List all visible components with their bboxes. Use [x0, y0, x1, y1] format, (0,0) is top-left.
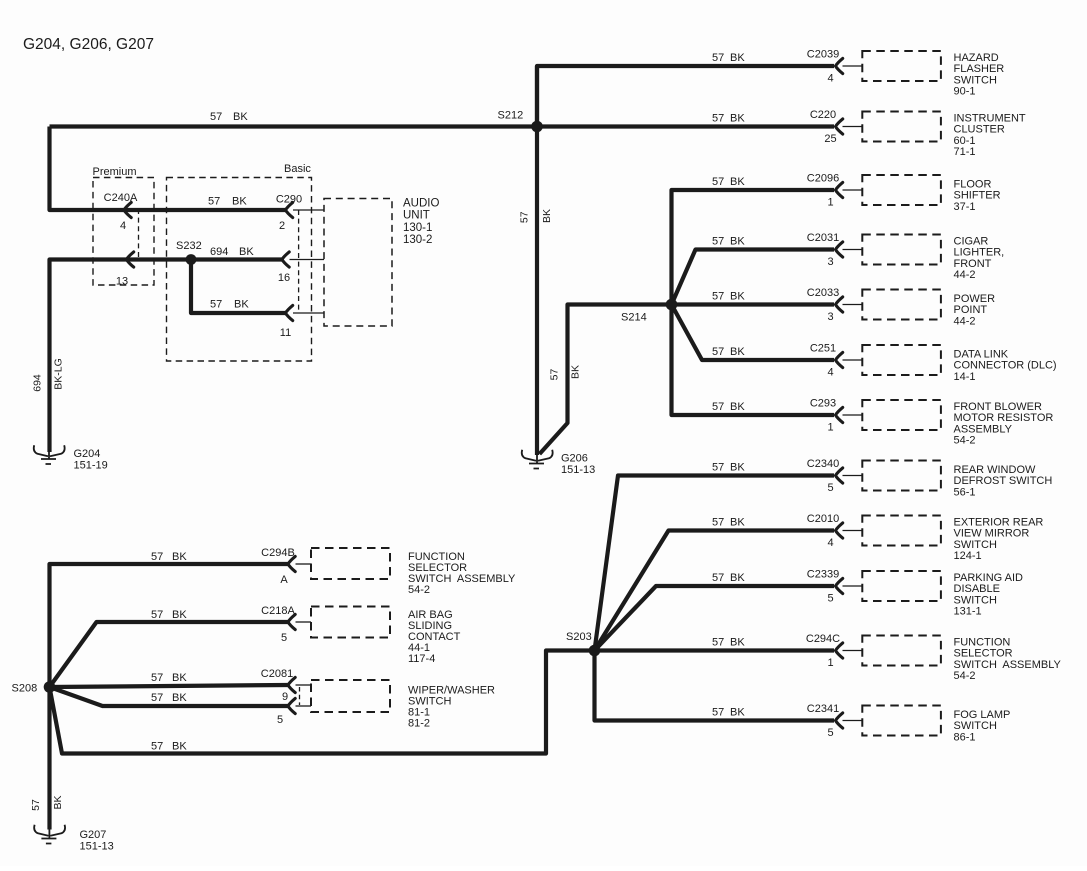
lead C251 to component [843, 359, 863, 361]
svg-text:57: 57 [712, 236, 724, 248]
lead C290 pin 2 to audio unit [293, 209, 324, 211]
svg-text:BK: BK [730, 291, 745, 303]
svg-text:BK: BK [730, 52, 745, 64]
connector C220 arrow [836, 119, 843, 134]
svg-text:C290: C290 [276, 194, 302, 206]
svg-text:C220: C220 [810, 109, 836, 121]
svg-text:BK: BK [730, 707, 745, 719]
svg-text:5: 5 [277, 714, 283, 726]
label 57 BK (C2341 row) [712, 707, 745, 719]
svg-text:UNIT: UNIT [403, 210, 430, 222]
component box FRONT BLOWER [862, 400, 941, 430]
svg-text:4: 4 [827, 537, 833, 549]
svg-text:37-1: 37-1 [954, 201, 976, 213]
svg-text:1: 1 [827, 657, 833, 669]
svg-text:117-4: 117-4 [408, 653, 435, 665]
wire: S214 straight branch to C2033 [672, 302, 835, 306]
svg-text:SWITCH: SWITCH [954, 74, 997, 86]
svg-text:57: 57 [712, 707, 724, 719]
label 57 BK (C2340 row) [712, 462, 745, 474]
component box WIPER/WASHER SWITCH [311, 680, 390, 712]
connector C294B arrow [288, 556, 295, 571]
connector C293 arrow [836, 407, 843, 422]
connector C240A arrow pin 13 [127, 252, 134, 267]
svg-text:EXTERIOR REAR: EXTERIOR REAR [954, 517, 1044, 529]
svg-text:BK: BK [730, 176, 745, 188]
label 57 BK (C293 row) [712, 401, 745, 413]
lead C2010 to component [843, 530, 863, 532]
label 57 BK (C218A row) [151, 609, 187, 621]
svg-text:SWITCH: SWITCH [954, 594, 997, 606]
svg-text:C251: C251 [810, 343, 836, 355]
svg-text:124-1: 124-1 [954, 550, 982, 562]
component box CIGAR [862, 235, 941, 265]
svg-text:S208: S208 [12, 683, 38, 695]
svg-text:FLOOR: FLOOR [954, 179, 992, 191]
wire: S208 down to ground G207 [47, 687, 51, 830]
svg-text:POWER: POWER [954, 293, 996, 305]
svg-text:57: 57 [712, 401, 724, 413]
svg-text:54-2: 54-2 [954, 670, 976, 682]
svg-text:3: 3 [827, 311, 833, 323]
component box REAR WINDOW [862, 461, 941, 491]
lead C218A to component [296, 621, 312, 623]
svg-text:151-19: 151-19 [74, 460, 108, 472]
svg-text:4: 4 [120, 220, 126, 232]
component box FUNCTION [862, 636, 941, 666]
svg-text:CONNECTOR (DLC): CONNECTOR (DLC) [954, 360, 1057, 372]
svg-text:REAR WINDOW: REAR WINDOW [954, 464, 1037, 476]
label G204 151-19 [74, 448, 108, 472]
wire: left drop to C240A pin 4 row [50, 127, 288, 211]
wire: S214 diagonal branch to C2031 [672, 250, 835, 305]
connector C290 arrow pin 2 [286, 202, 293, 217]
svg-text:HAZARD: HAZARD [954, 52, 999, 64]
svg-text:C2341: C2341 [807, 703, 839, 715]
svg-text:57: 57 [210, 111, 222, 123]
label 694 BK (S232 row) [210, 246, 254, 258]
connector C218A arrow [288, 614, 295, 629]
wire: S208 diagonal branch to C218A [50, 622, 288, 687]
svg-text:BK: BK [172, 551, 187, 563]
connector C290 arrow pin 11 [286, 305, 293, 320]
connector C2081 arrow pin 5 [288, 698, 295, 713]
svg-text:4: 4 [827, 73, 833, 85]
svg-text:57: 57 [712, 462, 724, 474]
svg-text:C218A: C218A [261, 605, 295, 617]
svg-text:57: 57 [712, 291, 724, 303]
svg-text:Basic: Basic [284, 163, 311, 175]
ground G207 [34, 825, 65, 844]
svg-text:25: 25 [824, 133, 836, 145]
svg-text:5: 5 [281, 632, 287, 644]
svg-text:44-2: 44-2 [954, 315, 976, 327]
svg-text:1: 1 [827, 422, 833, 434]
svg-text:57: 57 [30, 799, 42, 811]
label 57 BK (C2339 row) [712, 572, 745, 584]
connector C2339 arrow [836, 578, 843, 593]
svg-text:BK: BK [730, 113, 745, 125]
component box POWER [862, 290, 941, 320]
svg-text:BK-LG: BK-LG [53, 358, 65, 390]
svg-text:G204: G204 [74, 448, 101, 460]
connector C294C arrow [836, 643, 843, 658]
label 57 BK (C251 row) [712, 346, 745, 358]
svg-text:MOTOR RESISTOR: MOTOR RESISTOR [954, 412, 1054, 424]
connector C290 arrow pin 16 [282, 252, 289, 267]
svg-text:131-1: 131-1 [954, 606, 982, 618]
wire: S203 diagonal branch to C2339 [595, 586, 835, 651]
svg-text:Premium: Premium [93, 166, 137, 178]
wire: S214 diagonal branch to C251 [672, 305, 835, 361]
svg-text:BK: BK [730, 572, 745, 584]
lead C294C to component [843, 650, 863, 652]
connector C251 arrow [836, 352, 843, 367]
label 57 BK (C2081 pin 5 row) [151, 692, 187, 704]
svg-text:G206: G206 [561, 453, 588, 465]
svg-text:14-1: 14-1 [954, 371, 976, 383]
svg-text:BK: BK [570, 365, 582, 379]
svg-text:54-2: 54-2 [954, 435, 976, 447]
svg-text:BK: BK [232, 196, 247, 208]
svg-text:G207: G207 [80, 829, 107, 841]
svg-text:CIGAR: CIGAR [954, 236, 989, 248]
svg-text:DATA LINK: DATA LINK [954, 349, 1009, 361]
label 57 BK (interconnect) [151, 741, 187, 753]
wire: C220 branch from S212 [537, 124, 834, 128]
dashed connector line C240A [138, 209, 140, 259]
wire: S232 branch down to pin 11 [191, 260, 287, 314]
component box DATA LINK [862, 345, 941, 375]
connector C2031 arrow [836, 242, 843, 257]
connector C2010 arrow [836, 523, 843, 538]
svg-text:57: 57 [712, 52, 724, 64]
svg-text:S203: S203 [566, 631, 592, 643]
lead C290 pin 11 to audio unit [293, 312, 324, 314]
wire: S203 feed from S208 interconnect [50, 651, 595, 754]
svg-text:86-1: 86-1 [954, 731, 976, 743]
lead C2081 pin 5 [296, 705, 312, 707]
connector C2081 arrow pin 9 [288, 677, 295, 692]
lead C2341 to component [843, 720, 863, 722]
svg-text:BK: BK [730, 517, 745, 529]
svg-text:151-13: 151-13 [561, 464, 595, 476]
svg-text:G204, G206, G207: G204, G206, G207 [23, 36, 154, 53]
svg-text:CLUSTER: CLUSTER [954, 124, 1005, 136]
connector C2096 arrow [836, 182, 843, 197]
svg-text:57: 57 [712, 176, 724, 188]
component box FUNCTION [311, 548, 390, 579]
component box PARKING AID [862, 571, 941, 601]
svg-text:90-1: 90-1 [954, 86, 976, 98]
lead C293 to component [843, 414, 863, 416]
lead C2339 to component [843, 585, 863, 587]
label 57 BK (C220 row) [712, 113, 745, 125]
wire: S208 branch to C2081 pin 9 [50, 685, 288, 687]
svg-text:BK: BK [172, 609, 187, 621]
Premium box (dashed) [93, 178, 154, 286]
svg-text:71-1: 71-1 [954, 146, 976, 158]
svg-text:PARKING AID: PARKING AID [954, 572, 1024, 584]
Basic box (dashed) [167, 178, 312, 362]
svg-text:INSTRUMENT: INSTRUMENT [954, 113, 1026, 125]
lead C294B to component [296, 563, 312, 565]
label G206 151-13 [561, 453, 595, 477]
svg-text:AUDIO: AUDIO [403, 198, 439, 210]
svg-text:694: 694 [210, 246, 228, 258]
label 57 BK (C2081 pin 9 row) [151, 672, 187, 684]
wire: S203 diagonal branch to C2340 [595, 476, 835, 651]
ground G204 [34, 445, 65, 464]
connector C2340 arrow [836, 468, 843, 483]
wire: S208 up branch to C294B [50, 564, 288, 687]
audio unit box (dashed) [324, 199, 392, 327]
wire: S214 down branch to C293 [672, 305, 835, 416]
svg-text:BK: BK [233, 111, 248, 123]
lead C2039 to component [843, 65, 863, 67]
label 57 BK (C2033 row) [712, 291, 745, 303]
wire: S214 feed (left leg, down, to ground G206) [540, 305, 672, 455]
junction S203 [589, 645, 601, 657]
lead C2096 to component [843, 189, 863, 191]
svg-text:SWITCH: SWITCH [954, 720, 997, 732]
svg-text:C2096: C2096 [807, 173, 839, 185]
svg-text:C294B: C294B [261, 547, 295, 559]
svg-text:BK: BK [730, 346, 745, 358]
svg-text:A: A [280, 574, 288, 586]
svg-text:C2339: C2339 [807, 569, 839, 581]
svg-text:81-2: 81-2 [408, 718, 430, 730]
svg-text:DISABLE: DISABLE [954, 583, 1000, 595]
svg-text:C294C: C294C [806, 633, 840, 645]
lead C2031 to component [843, 249, 863, 251]
svg-text:FOG LAMP: FOG LAMP [954, 709, 1011, 721]
svg-text:SELECTOR: SELECTOR [954, 648, 1013, 660]
svg-text:57: 57 [151, 609, 163, 621]
lead C220 to component [843, 126, 863, 128]
svg-text:1: 1 [827, 197, 833, 209]
svg-text:57: 57 [712, 346, 724, 358]
svg-text:BK: BK [730, 637, 745, 649]
junction S214 [666, 299, 678, 311]
connector C240A arrow pin 4 [124, 202, 131, 217]
svg-text:SHIFTER: SHIFTER [954, 190, 1001, 202]
svg-text:57: 57 [151, 551, 163, 563]
junction S232 [186, 254, 197, 265]
wire: C2039 branch from S212 trunk [537, 66, 834, 127]
label G207 151-13 [80, 829, 114, 853]
lead C290 pin 16 to audio unit [290, 259, 325, 261]
svg-text:VIEW MIRROR: VIEW MIRROR [954, 528, 1030, 540]
svg-text:130-1: 130-1 [403, 222, 432, 234]
wire: pin13/S232 row to ground G204 [50, 260, 284, 453]
lead C2081 pin 9 [296, 684, 312, 686]
svg-text:C240A: C240A [104, 192, 138, 204]
junction S208 [44, 681, 56, 693]
svg-text:4: 4 [827, 367, 833, 379]
svg-text:BK: BK [172, 741, 187, 753]
svg-text:BK: BK [239, 246, 254, 258]
svg-text:FRONT: FRONT [954, 258, 992, 270]
svg-text:56-1: 56-1 [954, 486, 976, 498]
svg-text:130-2: 130-2 [403, 234, 432, 246]
lead C2340 to component [843, 475, 863, 477]
svg-text:44-2: 44-2 [954, 269, 976, 281]
svg-text:C2033: C2033 [807, 287, 839, 299]
dashed connector line C2081 [299, 687, 301, 705]
svg-text:57: 57 [712, 113, 724, 125]
svg-text:POINT: POINT [954, 304, 988, 316]
svg-text:57: 57 [208, 196, 220, 208]
svg-text:S214: S214 [621, 312, 647, 324]
svg-text:54-2: 54-2 [408, 584, 430, 596]
svg-text:BK: BK [730, 236, 745, 248]
label 57 BK (pin 11 row) [210, 299, 249, 311]
svg-text:FRONT BLOWER: FRONT BLOWER [954, 401, 1042, 413]
svg-text:BK: BK [541, 209, 553, 223]
component box FLOOR [862, 175, 941, 205]
svg-text:57: 57 [151, 692, 163, 704]
label 57 BK (C294C row) [712, 637, 745, 649]
svg-text:S232: S232 [176, 240, 202, 252]
svg-text:BK: BK [172, 692, 187, 704]
svg-text:60-1: 60-1 [954, 135, 976, 147]
svg-text:57: 57 [712, 572, 724, 584]
component box FOG LAMP [862, 706, 941, 736]
label 57 BK (C294B row) [151, 551, 187, 563]
svg-text:ASSEMBLY: ASSEMBLY [954, 423, 1013, 435]
svg-text:57: 57 [151, 672, 163, 684]
svg-text:DEFROST SWITCH: DEFROST SWITCH [954, 475, 1053, 487]
label 57 BK on top trunk [210, 111, 248, 123]
component box EXTERIOR REAR [862, 516, 941, 546]
svg-text:5: 5 [827, 482, 833, 494]
svg-text:BK: BK [730, 462, 745, 474]
wire: S212 trunk horizontal 57 BK [50, 124, 538, 128]
svg-text:57: 57 [712, 637, 724, 649]
svg-text:SWITCH ASSEMBLY: SWITCH ASSEMBLY [954, 659, 1062, 671]
component box AIR BAG [311, 607, 390, 638]
svg-text:C2031: C2031 [807, 232, 839, 244]
ground G206 [522, 450, 553, 469]
svg-text:C2010: C2010 [807, 513, 839, 525]
wire: S203 down branch to C2341 [595, 651, 835, 721]
wire: S203 diagonal branch to C2010 [595, 531, 835, 651]
svg-text:5: 5 [827, 593, 833, 605]
component box HAZARD [862, 51, 941, 81]
svg-text:57: 57 [518, 211, 530, 223]
svg-text:S212: S212 [498, 110, 524, 122]
dashed connector line C290 [298, 210, 300, 313]
svg-text:2: 2 [279, 220, 285, 232]
label 57 BK (C240A-C290 row) [208, 196, 247, 208]
svg-text:16: 16 [278, 272, 290, 284]
svg-text:C293: C293 [810, 398, 836, 410]
svg-text:LIGHTER,: LIGHTER, [954, 247, 1005, 259]
label 57 BK (C2010 row) [712, 517, 745, 529]
svg-text:FLASHER: FLASHER [954, 63, 1005, 75]
svg-text:5: 5 [827, 727, 833, 739]
label 57 BK (C2096 row) [712, 176, 745, 188]
svg-text:57: 57 [712, 517, 724, 529]
svg-text:C2039: C2039 [807, 49, 839, 61]
svg-text:694: 694 [31, 374, 43, 392]
label 57 BK (C2031 row) [712, 236, 745, 248]
svg-text:FUNCTION: FUNCTION [954, 637, 1011, 649]
svg-text:C2340: C2340 [807, 458, 839, 470]
svg-text:9: 9 [282, 691, 288, 703]
component box INSTRUMENT [862, 112, 941, 142]
svg-text:BK: BK [234, 299, 249, 311]
svg-text:57: 57 [549, 369, 561, 381]
wire: S214 up branch to C2096 [672, 190, 835, 305]
svg-text:BK: BK [172, 672, 187, 684]
svg-text:BK: BK [52, 795, 64, 809]
svg-text:3: 3 [827, 256, 833, 268]
svg-text:151-13: 151-13 [80, 841, 114, 853]
svg-text:57: 57 [210, 299, 222, 311]
wire: S203 straight branch to C294C [595, 648, 835, 652]
wire: S208 diagonal branch to C2081 pin 5 [50, 687, 288, 706]
wire: S212 vertical trunk down to ground G206 [535, 66, 539, 455]
svg-text:BK: BK [730, 401, 745, 413]
connector C2341 arrow [836, 713, 843, 728]
junction S212 [531, 121, 543, 133]
lead C2033 to component [843, 304, 863, 306]
connector C2033 arrow [836, 297, 843, 312]
connector C2039 arrow [836, 58, 843, 73]
label 57 BK (C2039 row) [712, 52, 745, 64]
svg-text:11: 11 [280, 327, 291, 339]
svg-text:57: 57 [151, 741, 163, 753]
svg-text:C2081: C2081 [261, 668, 293, 680]
svg-text:SWITCH: SWITCH [954, 539, 997, 551]
